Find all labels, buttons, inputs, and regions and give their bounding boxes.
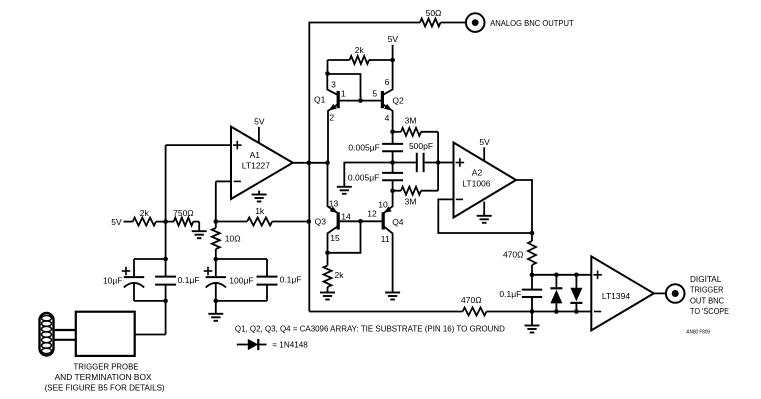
svg-text:(SEE FIGURE B5 FOR DETAILS): (SEE FIGURE B5 FOR DETAILS) (45, 383, 165, 393)
svg-text:ANALOG BNC OUTPUT: ANALOG BNC OUTPUT (490, 18, 574, 28)
svg-text:2k: 2k (335, 270, 345, 280)
svg-text:470Ω: 470Ω (503, 250, 524, 260)
svg-text:A1: A1 (250, 150, 261, 160)
svg-text:13: 13 (329, 198, 339, 208)
svg-text:3: 3 (331, 79, 336, 89)
svg-text:1: 1 (341, 88, 346, 98)
svg-text:0.1μF: 0.1μF (178, 275, 200, 285)
svg-text:4: 4 (385, 113, 390, 123)
svg-text:TRIGGER: TRIGGER (690, 285, 724, 295)
svg-text:11: 11 (381, 234, 390, 244)
svg-text:Q1: Q1 (314, 95, 326, 105)
svg-text:10Ω: 10Ω (225, 234, 241, 244)
svg-text:500pF: 500pF (409, 141, 433, 151)
svg-text:OUT BNC: OUT BNC (690, 296, 724, 306)
svg-text:0.005μF: 0.005μF (348, 173, 379, 183)
svg-text:10μF: 10μF (103, 275, 123, 285)
svg-text:5V: 5V (111, 217, 122, 227)
svg-text:DIGITAL: DIGITAL (690, 274, 722, 284)
svg-text:TRIGGER PROBE: TRIGGER PROBE (74, 362, 139, 372)
svg-text:Q4: Q4 (392, 217, 404, 227)
svg-text:14: 14 (341, 212, 351, 222)
svg-text:1k: 1k (255, 206, 265, 216)
svg-text:Q2: Q2 (392, 95, 404, 105)
svg-text:470Ω: 470Ω (461, 295, 482, 305)
svg-text:2k: 2k (140, 208, 150, 218)
svg-text:LT1227: LT1227 (242, 160, 270, 170)
svg-text:12: 12 (367, 209, 377, 219)
svg-text:100μF: 100μF (229, 275, 253, 285)
svg-text:5V: 5V (479, 137, 490, 147)
svg-text:LT1394: LT1394 (602, 291, 630, 301)
svg-text:6: 6 (385, 77, 390, 87)
svg-text:50Ω: 50Ω (426, 8, 442, 18)
svg-text:5V: 5V (254, 116, 265, 126)
svg-text:= 1N4148: = 1N4148 (272, 340, 308, 350)
svg-text:AND TERMINATION BOX: AND TERMINATION BOX (55, 372, 152, 382)
svg-text:Q3: Q3 (315, 216, 327, 226)
svg-text:LT1006: LT1006 (462, 179, 490, 189)
svg-text:3M: 3M (405, 115, 417, 125)
svg-text:10: 10 (378, 200, 388, 210)
svg-text:TO 'SCOPE: TO 'SCOPE (690, 306, 729, 316)
svg-text:5: 5 (372, 88, 377, 98)
svg-text:2: 2 (329, 112, 334, 122)
svg-text:AN80 F809: AN80 F809 (687, 329, 711, 335)
svg-text:0.005μF: 0.005μF (348, 143, 379, 153)
svg-text:2k: 2k (355, 45, 365, 55)
svg-text:750Ω: 750Ω (173, 208, 194, 218)
svg-text:A2: A2 (472, 168, 483, 178)
svg-text:0.1μF: 0.1μF (499, 289, 521, 299)
svg-text:5V: 5V (388, 34, 399, 44)
svg-text:0.1μF: 0.1μF (280, 275, 302, 285)
svg-text:3M: 3M (405, 197, 417, 207)
svg-text:15: 15 (330, 233, 340, 243)
svg-text:Q1, Q2, Q3, Q4 = CA3096 ARRAY:: Q1, Q2, Q3, Q4 = CA3096 ARRAY: TIE SUBST… (235, 323, 505, 333)
